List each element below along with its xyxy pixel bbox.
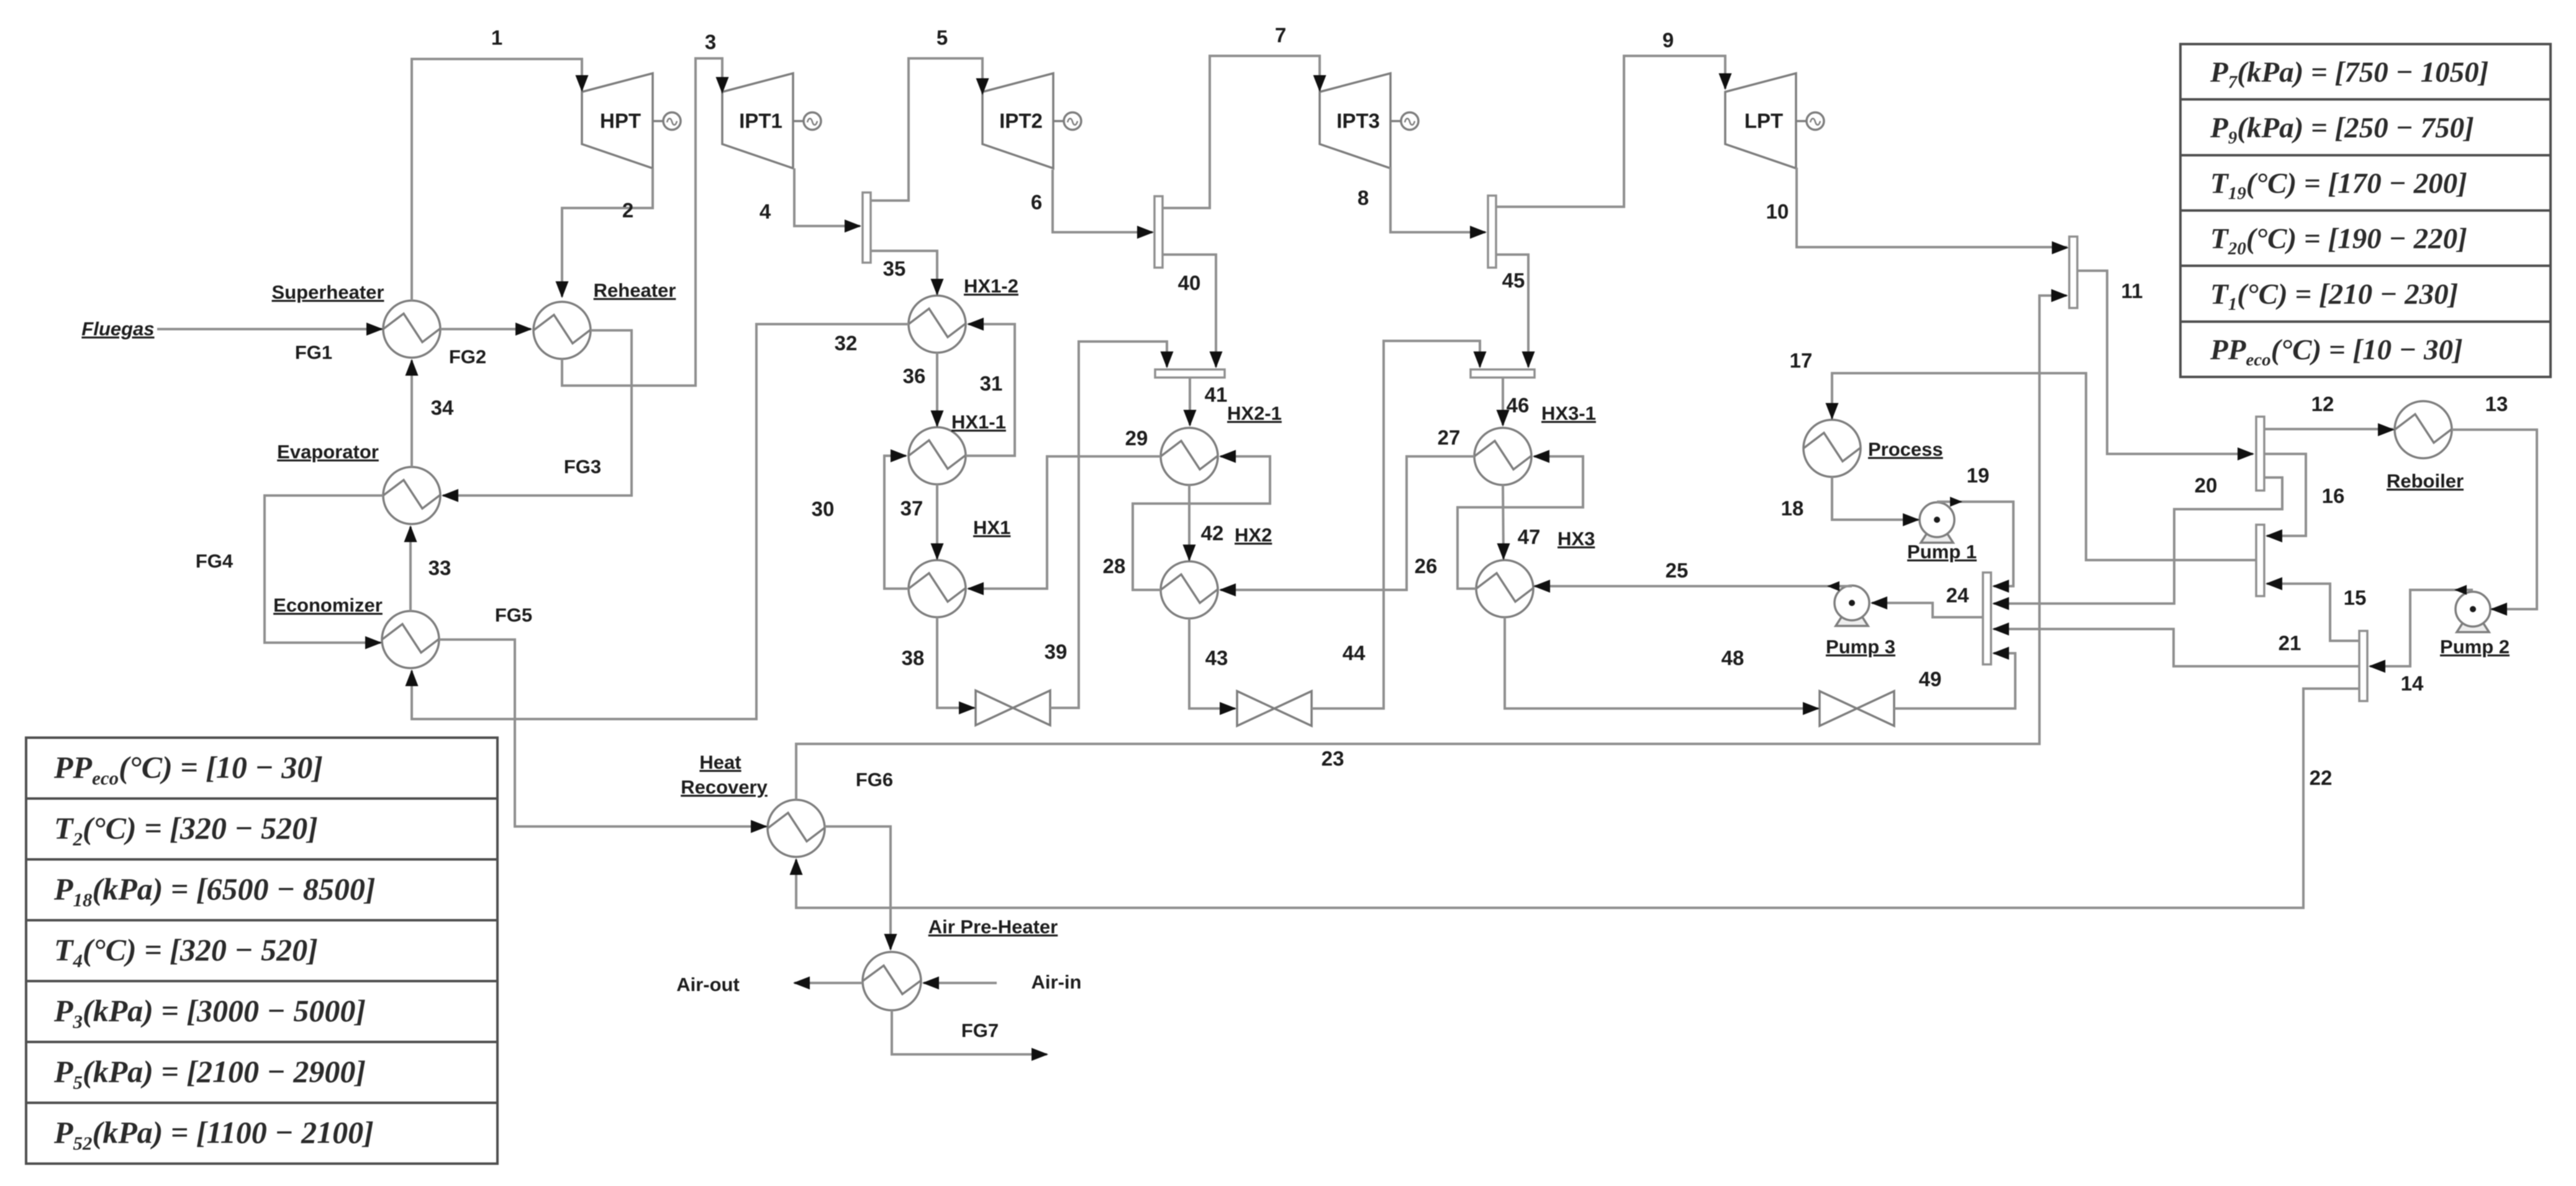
svg-text:37: 37 bbox=[900, 497, 923, 520]
svg-text:HX1-2: HX1-2 bbox=[964, 275, 1018, 297]
wire stream 39 bbox=[1050, 342, 1167, 708]
heat exchanger Air Pre-Heater bbox=[863, 952, 921, 1010]
svg-text:47: 47 bbox=[1518, 525, 1541, 548]
wire stream 13 bbox=[2452, 430, 2537, 609]
svg-text:P18(kPa) = [6500 − 8500]: P18(kPa) = [6500 − 8500] bbox=[53, 872, 375, 911]
wire stream 19 bbox=[1937, 502, 2013, 586]
wire stream 14 bbox=[2370, 590, 2473, 666]
wire FG7 bbox=[892, 1010, 1047, 1054]
turbine HPT bbox=[582, 73, 653, 168]
svg-text:Reheater: Reheater bbox=[594, 279, 676, 301]
turbine LPT bbox=[1725, 73, 1796, 168]
svg-text:29: 29 bbox=[1125, 427, 1148, 450]
heat exchanger HX1 bbox=[909, 560, 966, 617]
wire stream 5 bbox=[871, 58, 982, 201]
svg-text:21: 21 bbox=[2279, 631, 2302, 654]
svg-text:HPT: HPT bbox=[600, 109, 641, 132]
header D deaerator bbox=[1983, 573, 1991, 664]
mixer M2 bbox=[1471, 369, 1535, 378]
svg-text:26: 26 bbox=[1415, 555, 1438, 577]
svg-text:1: 1 bbox=[491, 26, 502, 49]
svg-text:HX2-1: HX2-1 bbox=[1227, 402, 1282, 424]
svg-text:HX1: HX1 bbox=[973, 517, 1010, 538]
turbine IPT2 bbox=[982, 73, 1053, 168]
svg-text:P7(kPa) = [750 − 1050]: P7(kPa) = [750 − 1050] bbox=[2210, 57, 2488, 93]
svg-text:Reboiler: Reboiler bbox=[2387, 470, 2464, 492]
valve V2 bbox=[1237, 691, 1312, 726]
svg-text:P52(kPa) = [1100 − 2100]: P52(kPa) = [1100 − 2100] bbox=[53, 1115, 374, 1154]
generator of IPT3 bbox=[1390, 112, 1418, 130]
wire stream 33 bbox=[409, 527, 412, 611]
svg-text:Heat: Heat bbox=[699, 751, 741, 773]
pump Pump 1 bbox=[1920, 502, 1954, 543]
generator of HPT bbox=[653, 112, 681, 130]
wire Air-out bbox=[794, 982, 863, 984]
svg-text:Process: Process bbox=[1868, 438, 1943, 460]
wire stream 3 bbox=[562, 58, 722, 386]
svg-text:T19(°C) = [170 − 200]: T19(°C) = [170 − 200] bbox=[2210, 167, 2467, 203]
generator of LPT bbox=[1796, 112, 1824, 130]
svg-text:HX3-1: HX3-1 bbox=[1541, 402, 1596, 424]
wire stream 15 bbox=[2267, 584, 2359, 641]
svg-text:14: 14 bbox=[2401, 672, 2424, 695]
svg-text:35: 35 bbox=[883, 257, 906, 280]
heat exchanger HX2-1 bbox=[1161, 428, 1218, 485]
wire stream 34 bbox=[410, 360, 413, 467]
wire stream 7 bbox=[1163, 56, 1320, 208]
wire stream 18 bbox=[1832, 477, 1918, 520]
generator of IPT2 bbox=[1053, 112, 1081, 130]
heat exchanger Process bbox=[1803, 420, 1861, 477]
svg-text:Air-out: Air-out bbox=[676, 974, 740, 995]
svg-text:FG4: FG4 bbox=[196, 550, 234, 572]
header E LPT exhaust bbox=[2069, 237, 2077, 308]
mixer M1 bbox=[1155, 369, 1225, 378]
svg-text:42: 42 bbox=[1201, 522, 1224, 545]
wire stream 49 bbox=[1894, 653, 2015, 708]
svg-text:11: 11 bbox=[2121, 279, 2143, 302]
wire stream 32 bbox=[412, 324, 909, 719]
wire stream 21 bbox=[1993, 629, 2359, 666]
wire stream 42 bbox=[1188, 485, 1190, 560]
svg-text:17: 17 bbox=[1790, 349, 1813, 372]
svg-text:3: 3 bbox=[705, 30, 716, 53]
header A splitter bbox=[2256, 417, 2264, 491]
svg-text:40: 40 bbox=[1178, 271, 1201, 294]
wire FG3 bbox=[443, 330, 632, 496]
turbine IPT1 bbox=[722, 73, 793, 168]
wire stream 8 bbox=[1390, 167, 1485, 232]
svg-text:49: 49 bbox=[1919, 668, 1942, 690]
svg-text:P5(kPa) = [2100 − 2900]: P5(kPa) = [2100 − 2900] bbox=[53, 1054, 366, 1093]
heat exchanger HX3 bbox=[1476, 560, 1533, 617]
svg-text:10: 10 bbox=[1766, 200, 1789, 223]
wire stream 40 bbox=[1163, 255, 1216, 367]
svg-text:8: 8 bbox=[1358, 186, 1369, 209]
svg-text:FG3: FG3 bbox=[564, 456, 601, 478]
svg-text:36: 36 bbox=[903, 364, 926, 387]
wire stream 41 bbox=[1189, 378, 1191, 425]
wire FG6 bbox=[825, 826, 891, 949]
svg-text:IPT2: IPT2 bbox=[999, 109, 1043, 132]
wire stream 36 bbox=[936, 353, 938, 426]
wire stream 20 bbox=[1993, 478, 2282, 604]
svg-text:32: 32 bbox=[835, 332, 858, 355]
svg-text:9: 9 bbox=[1662, 29, 1674, 52]
valve V3 bbox=[1820, 691, 1894, 726]
wire stream 48 bbox=[1505, 617, 1818, 708]
heat exchanger Reheater bbox=[533, 302, 591, 359]
svg-text:HX1-1: HX1-1 bbox=[951, 411, 1006, 433]
wire stream 11 bbox=[2077, 271, 2253, 454]
svg-text:27: 27 bbox=[1438, 426, 1461, 449]
svg-text:Pump 3: Pump 3 bbox=[1826, 636, 1895, 658]
svg-text:T2(°C) = [320 − 520]: T2(°C) = [320 − 520] bbox=[54, 811, 318, 850]
svg-text:44: 44 bbox=[1343, 641, 1366, 664]
heat exchanger HX3-1 bbox=[1474, 428, 1531, 485]
wire stream 10 bbox=[1797, 168, 2067, 247]
wire Air-in bbox=[923, 982, 997, 984]
wire stream 25 bbox=[1535, 585, 1852, 587]
header F2 after IPT2 bbox=[1154, 196, 1163, 268]
heat exchanger HX1-1 bbox=[909, 427, 966, 484]
wire FG2 bbox=[440, 328, 531, 330]
header C splitter bbox=[2359, 631, 2367, 701]
turbine IPT3 bbox=[1320, 73, 1390, 168]
header B mixer bbox=[2256, 525, 2264, 596]
svg-text:6: 6 bbox=[1031, 191, 1042, 214]
wire stream 30 bbox=[884, 456, 909, 589]
wire stream 28 bbox=[1133, 456, 1270, 590]
svg-text:T1(°C) = [210 − 230]: T1(°C) = [210 − 230] bbox=[2210, 278, 2458, 314]
svg-text:15: 15 bbox=[2344, 586, 2367, 609]
wire stream 38 bbox=[937, 617, 974, 708]
svg-text:39: 39 bbox=[1045, 640, 1068, 663]
svg-text:46: 46 bbox=[1507, 394, 1530, 417]
wire stream 46 bbox=[1502, 378, 1504, 425]
wire stream 47 bbox=[1503, 485, 1503, 559]
svg-text:20: 20 bbox=[2195, 474, 2218, 497]
svg-text:5: 5 bbox=[937, 26, 948, 49]
svg-text:HX2: HX2 bbox=[1235, 524, 1272, 546]
wire stream 43 bbox=[1189, 618, 1235, 708]
wire stream 1 bbox=[412, 59, 582, 301]
svg-text:22: 22 bbox=[2310, 766, 2333, 789]
svg-text:33: 33 bbox=[429, 556, 451, 579]
svg-text:13: 13 bbox=[2485, 392, 2508, 415]
heat exchanger Superheater bbox=[383, 301, 440, 358]
svg-text:Air Pre-Heater: Air Pre-Heater bbox=[928, 916, 1058, 938]
wire stream 44 bbox=[1312, 341, 1480, 708]
heat exchanger HX2 bbox=[1161, 561, 1218, 618]
svg-text:45: 45 bbox=[1502, 269, 1525, 292]
wire stream 27 bbox=[1220, 456, 1474, 590]
generator of IPT1 bbox=[793, 112, 821, 130]
parameter box top-right bbox=[2180, 44, 2551, 377]
heat exchanger Economizer bbox=[382, 611, 439, 668]
svg-text:Superheater: Superheater bbox=[272, 281, 384, 303]
wire stream 31 bbox=[966, 324, 1015, 456]
wire stream 6 bbox=[1053, 170, 1153, 232]
svg-text:FG2: FG2 bbox=[449, 346, 486, 368]
svg-text:12: 12 bbox=[2311, 392, 2334, 415]
svg-text:Fluegas: Fluegas bbox=[81, 318, 154, 340]
wire Fluegas FG1 bbox=[157, 328, 382, 330]
svg-text:24: 24 bbox=[1946, 584, 1969, 607]
parameter box bottom-left bbox=[26, 738, 497, 1164]
svg-text:31: 31 bbox=[980, 372, 1003, 395]
wire stream 2 bbox=[562, 168, 653, 297]
wire stream 17 bbox=[1832, 373, 2256, 560]
svg-text:48: 48 bbox=[1721, 646, 1744, 669]
wire stream 26 bbox=[1458, 456, 1583, 589]
svg-text:Air-in: Air-in bbox=[1032, 971, 1082, 993]
svg-text:2: 2 bbox=[622, 199, 633, 222]
svg-text:Pump 2: Pump 2 bbox=[2440, 636, 2510, 658]
wire stream 22 bbox=[796, 689, 2359, 908]
svg-text:7: 7 bbox=[1275, 24, 1286, 47]
svg-text:FG5: FG5 bbox=[495, 604, 532, 626]
wire stream 45 bbox=[1496, 255, 1528, 367]
wire stream 16 bbox=[2264, 454, 2306, 536]
svg-text:HX3: HX3 bbox=[1558, 528, 1595, 550]
svg-text:Pump 1: Pump 1 bbox=[1907, 541, 1977, 563]
heat exchanger HX1-2 bbox=[909, 296, 966, 353]
wire stream 4 bbox=[794, 168, 860, 226]
svg-text:T20(°C) = [190 − 220]: T20(°C) = [190 − 220] bbox=[2210, 223, 2467, 259]
heat exchanger Heat Recovery bbox=[768, 800, 825, 857]
wire FG4 bbox=[265, 496, 383, 643]
pump Pump 2 bbox=[2456, 592, 2490, 632]
svg-text:43: 43 bbox=[1205, 646, 1228, 669]
heat exchanger Evaporator bbox=[383, 467, 440, 524]
svg-text:FG7: FG7 bbox=[961, 1020, 999, 1041]
svg-text:P9(kPa) = [250 − 750]: P9(kPa) = [250 − 750] bbox=[2210, 112, 2474, 148]
wire stream 29 bbox=[968, 456, 1161, 589]
header F1 after IPT1 bbox=[863, 192, 871, 263]
svg-text:23: 23 bbox=[1322, 747, 1345, 770]
wire stream 35 bbox=[871, 251, 937, 294]
svg-text:Recovery: Recovery bbox=[681, 776, 768, 798]
wire stream 23 bbox=[796, 296, 2067, 800]
svg-text:P3(kPa) = [3000 − 5000]: P3(kPa) = [3000 − 5000] bbox=[53, 994, 366, 1033]
wire stream 37 bbox=[936, 484, 938, 559]
svg-text:30: 30 bbox=[812, 497, 835, 520]
valve V1 bbox=[976, 690, 1050, 725]
wire stream 9 bbox=[1496, 56, 1725, 207]
svg-text:19: 19 bbox=[1967, 464, 1990, 487]
wire FG5 bbox=[439, 640, 766, 826]
svg-text:IPT3: IPT3 bbox=[1336, 109, 1380, 132]
svg-text:41: 41 bbox=[1205, 383, 1228, 406]
svg-text:Evaporator: Evaporator bbox=[277, 441, 379, 463]
svg-text:T4(°C) = [320 − 520]: T4(°C) = [320 − 520] bbox=[54, 933, 318, 972]
wire stream 24 bbox=[1872, 603, 1983, 617]
pump Pump 3 bbox=[1834, 586, 1869, 626]
svg-text:4: 4 bbox=[760, 200, 771, 223]
header F3 after IPT3 bbox=[1488, 196, 1496, 268]
svg-text:16: 16 bbox=[2322, 484, 2345, 507]
svg-text:LPT: LPT bbox=[1744, 109, 1783, 132]
heat exchanger Reboiler bbox=[2395, 401, 2452, 458]
svg-text:FG6: FG6 bbox=[856, 769, 893, 790]
svg-text:38: 38 bbox=[902, 646, 925, 669]
svg-text:FG1: FG1 bbox=[295, 342, 332, 363]
wire stream 12 bbox=[2264, 428, 2393, 430]
svg-text:18: 18 bbox=[1781, 497, 1804, 520]
svg-text:28: 28 bbox=[1103, 555, 1126, 577]
svg-text:Economizer: Economizer bbox=[273, 594, 383, 616]
svg-text:25: 25 bbox=[1666, 559, 1689, 582]
svg-text:34: 34 bbox=[431, 396, 454, 419]
svg-text:IPT1: IPT1 bbox=[739, 109, 782, 132]
